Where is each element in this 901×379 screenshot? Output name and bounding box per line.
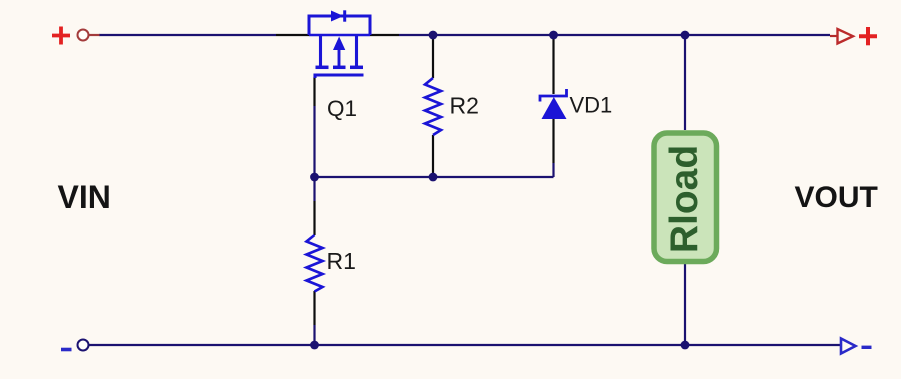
svg-text:R1: R1 — [327, 248, 356, 274]
svg-text:VD1: VD1 — [570, 93, 613, 118]
svg-text:R2: R2 — [450, 93, 479, 119]
svg-text:VIN: VIN — [58, 179, 111, 215]
svg-text:Rload: Rload — [663, 145, 706, 253]
svg-text:Q1: Q1 — [327, 96, 357, 121]
svg-text:VOUT: VOUT — [795, 181, 878, 214]
